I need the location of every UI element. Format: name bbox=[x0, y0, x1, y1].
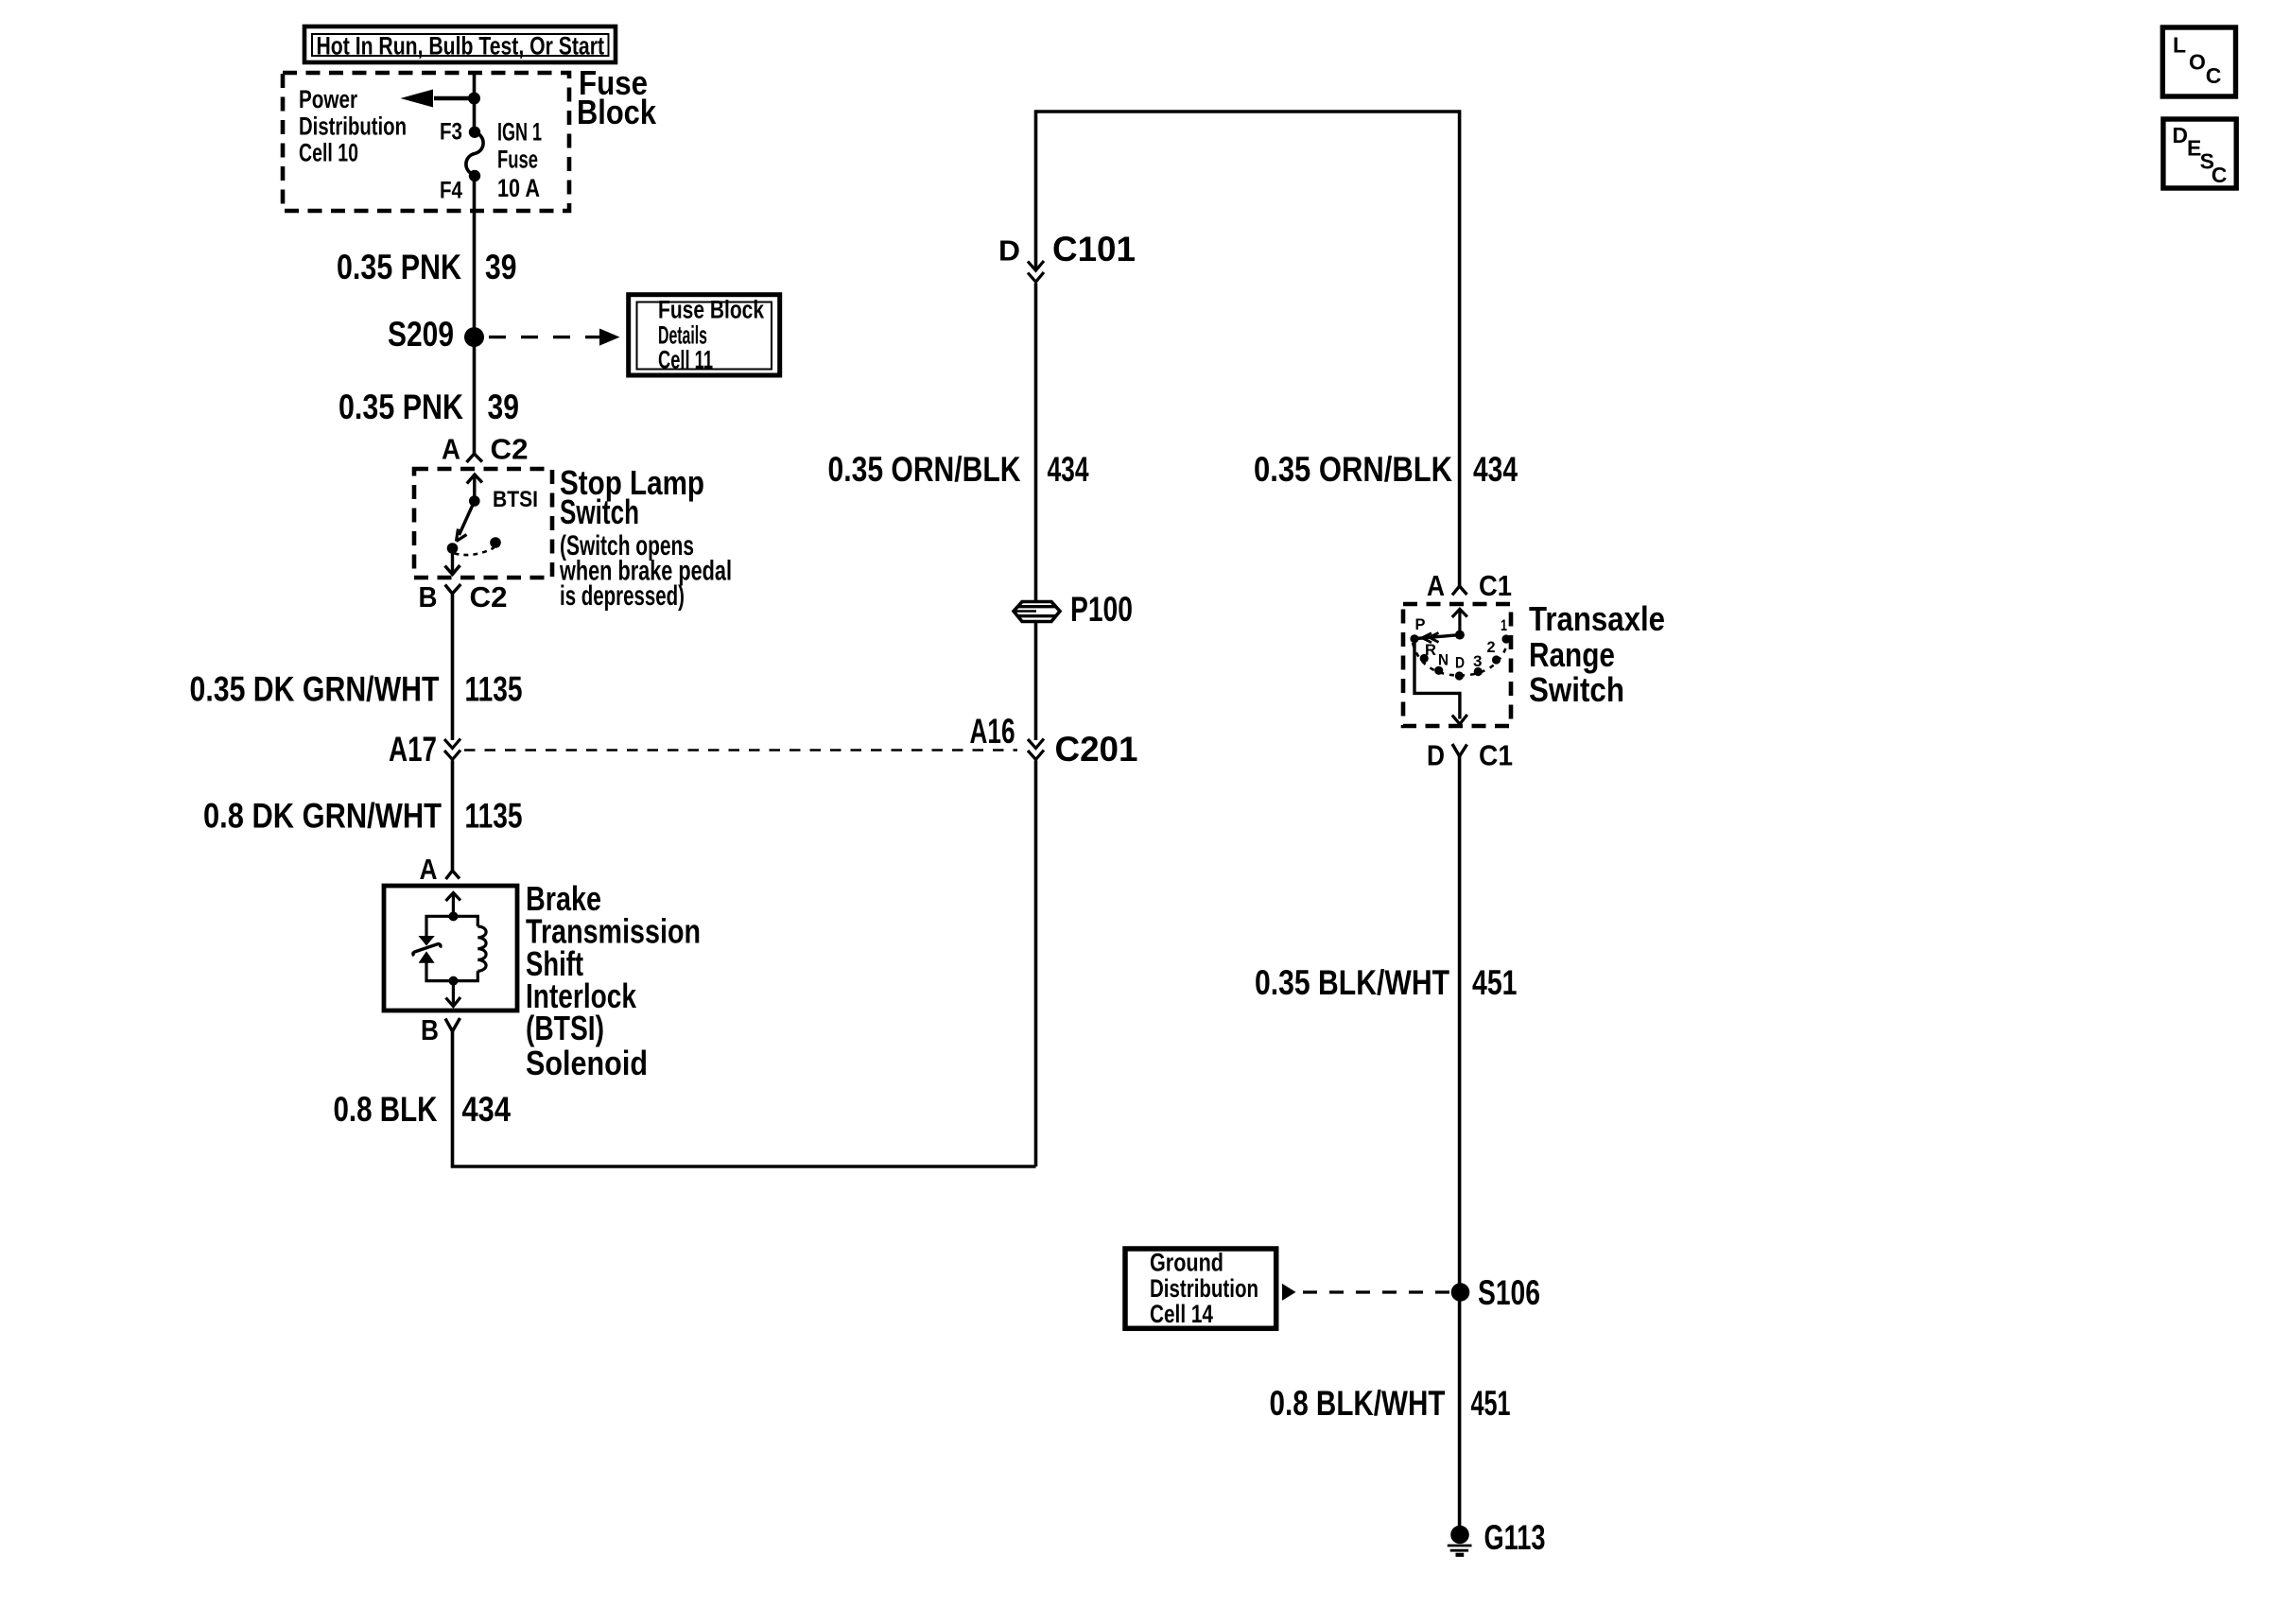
connector C201 pin A17 (double chevron) bbox=[389, 730, 460, 769]
wire: C201 up to P100 bbox=[1034, 622, 1038, 740]
svg-text:1135: 1135 bbox=[465, 670, 523, 709]
wire: B-C2 down to A17 bbox=[451, 593, 455, 740]
wire: middle column vertical (ground return) bbox=[1034, 761, 1038, 1167]
wire: D-C1 down to S106 bbox=[1458, 754, 1462, 1292]
connector C2 pin A (half, legs down) bbox=[442, 433, 529, 466]
node F4 bbox=[469, 170, 480, 181]
svg-text:C1: C1 bbox=[1479, 569, 1512, 602]
svg-text:L: L bbox=[2173, 32, 2186, 57]
svg-text:Distribution: Distribution bbox=[299, 112, 407, 141]
connector C1 pin D (legs up) bbox=[1427, 739, 1513, 772]
svg-text:BTSI: BTSI bbox=[493, 487, 538, 512]
stop lamp switch: pivot node bbox=[469, 495, 480, 507]
wire label 0.35 PNK 39 (second) bbox=[338, 388, 519, 426]
svg-text:IGN 1: IGN 1 bbox=[497, 118, 542, 147]
stop lamp switch: blade with arrowhead bbox=[457, 501, 475, 542]
connector C201 pin A16 (double chevron) bbox=[970, 712, 1138, 769]
stop lamp switch: exit arrow (down) bbox=[445, 551, 460, 575]
BTSI interior: suppressor diode pair bbox=[413, 937, 441, 963]
svg-text:0.35 ORN/BLK: 0.35 ORN/BLK bbox=[828, 450, 1021, 489]
svg-text:Distribution: Distribution bbox=[1150, 1274, 1258, 1303]
svg-text:C: C bbox=[2206, 63, 2222, 88]
svg-text:2: 2 bbox=[1487, 638, 1496, 656]
transaxle switch: exit arrow (down) bbox=[1452, 715, 1467, 724]
svg-text:434: 434 bbox=[1473, 450, 1518, 489]
dashed reference line from S209 bbox=[489, 329, 620, 346]
BTSI interior: parallel loop wiring bbox=[426, 916, 477, 936]
DESC reference box bbox=[2163, 119, 2236, 188]
dashed line A17 to A16 bbox=[464, 749, 1017, 752]
fuse block dashed box bbox=[283, 73, 569, 211]
label: IGN 1 Fuse 10 A bbox=[497, 118, 542, 203]
svg-text:A17: A17 bbox=[389, 730, 437, 769]
svg-text:Fuse: Fuse bbox=[497, 146, 538, 174]
svg-text:39: 39 bbox=[488, 388, 520, 426]
BTSI interior: bottom node bbox=[449, 976, 459, 986]
svg-text:1135: 1135 bbox=[465, 797, 523, 836]
svg-text:A: A bbox=[1427, 569, 1445, 602]
svg-text:D: D bbox=[998, 234, 1020, 268]
svg-text:C2: C2 bbox=[491, 433, 529, 466]
connector C2 pin B (half, legs up) bbox=[419, 580, 508, 613]
wire label 0.8 BLK 434 bbox=[334, 1090, 512, 1129]
BTSI solenoid pin A (legs down) bbox=[420, 853, 460, 886]
svg-text:3: 3 bbox=[1473, 652, 1483, 670]
splice S209 bbox=[464, 327, 484, 347]
stop lamp switch: dashed travel arc bbox=[455, 548, 495, 556]
svg-text:D: D bbox=[1455, 654, 1465, 672]
ground G113 bbox=[1448, 1518, 1546, 1557]
svg-text:10 A: 10 A bbox=[497, 174, 540, 202]
svg-text:D: D bbox=[1427, 739, 1445, 772]
svg-text:Block: Block bbox=[577, 93, 657, 131]
LOC reference box bbox=[2162, 27, 2235, 96]
svg-text:Cell 10: Cell 10 bbox=[299, 139, 358, 167]
transaxle switch: path from P to exit bbox=[1414, 639, 1460, 719]
label: Transaxle Range Switch bbox=[1529, 599, 1665, 709]
svg-text:A: A bbox=[420, 853, 438, 886]
svg-text:434: 434 bbox=[462, 1090, 512, 1129]
BTSI solenoid pin B (legs up) bbox=[421, 1013, 460, 1046]
dashed reference line to S106 bbox=[1282, 1284, 1449, 1301]
svg-text:O: O bbox=[2189, 50, 2206, 75]
svg-text:A16: A16 bbox=[970, 712, 1015, 751]
svg-text:P: P bbox=[1415, 615, 1426, 633]
svg-text:434: 434 bbox=[1048, 450, 1089, 489]
svg-text:N: N bbox=[1438, 651, 1449, 669]
BTSI interior: solenoid coil bbox=[477, 926, 486, 971]
connector C101 pin D (arrow + chevron) bbox=[998, 230, 1136, 282]
svg-text:S106: S106 bbox=[1478, 1273, 1540, 1312]
node F3 bbox=[469, 127, 480, 138]
svg-text:1: 1 bbox=[1501, 616, 1507, 634]
svg-text:D: D bbox=[2172, 123, 2188, 147]
label: Brake Transmission Shift Interlock (BTSI) Solenoid bbox=[526, 879, 701, 1082]
svg-text:Solenoid: Solenoid bbox=[526, 1044, 648, 1082]
svg-text:S209: S209 bbox=[388, 315, 454, 354]
svg-text:Ground: Ground bbox=[1150, 1249, 1223, 1277]
svg-text:0.35 ORN/BLK: 0.35 ORN/BLK bbox=[1254, 450, 1452, 489]
svg-text:0.35 PNK: 0.35 PNK bbox=[337, 248, 461, 286]
svg-text:B: B bbox=[421, 1013, 439, 1046]
svg-text:A: A bbox=[442, 433, 460, 466]
transaxle range switch dashed box bbox=[1403, 604, 1511, 726]
wire label 0.35 ORN/BLK 434 (right) bbox=[1254, 450, 1518, 489]
svg-text:Power: Power bbox=[299, 85, 357, 113]
label: Stop Lamp Switch bbox=[559, 463, 732, 612]
BTSI solenoid box bbox=[384, 886, 517, 1011]
svg-text:C101: C101 bbox=[1052, 230, 1136, 268]
svg-text:0.8 BLK: 0.8 BLK bbox=[334, 1090, 438, 1129]
transaxle switch: pivot node bbox=[1455, 631, 1465, 640]
wire: from fuse block top to F3 bbox=[473, 73, 477, 131]
BTSI interior: entry arrow bbox=[446, 893, 461, 917]
svg-text:R: R bbox=[1425, 641, 1436, 659]
box: Fuse Block Details Cell 11 bbox=[629, 295, 780, 375]
wire label 0.8 BLK/WHT 451 bbox=[1270, 1384, 1511, 1423]
svg-text:0.8 BLK/WHT: 0.8 BLK/WHT bbox=[1270, 1384, 1446, 1423]
svg-text:C2: C2 bbox=[470, 580, 508, 613]
wire: A17 to BTSI solenoid pin A bbox=[451, 761, 455, 872]
BTSI interior: top node bbox=[449, 911, 459, 921]
stop lamp switch dashed box bbox=[414, 469, 552, 578]
splice S106 bbox=[1451, 1283, 1470, 1302]
transaxle switch: dashed travel arc bbox=[1413, 643, 1508, 676]
svg-text:B: B bbox=[419, 580, 438, 613]
svg-text:F3: F3 bbox=[440, 119, 462, 146]
header box: Hot In Run, Bulb Test, Or Start bbox=[304, 26, 616, 62]
wire label 0.35 BLK/WHT 451 bbox=[1255, 963, 1518, 1002]
svg-text:P100: P100 bbox=[1070, 590, 1133, 629]
svg-text:F4: F4 bbox=[440, 178, 462, 204]
svg-text:0.35 DK GRN/WHT: 0.35 DK GRN/WHT bbox=[190, 670, 440, 709]
label: Fuse Block bbox=[577, 63, 657, 131]
svg-text:is depressed): is depressed) bbox=[560, 580, 685, 612]
svg-text:39: 39 bbox=[485, 248, 517, 286]
svg-text:0.35 PNK: 0.35 PNK bbox=[338, 388, 463, 426]
wire label 0.35 PNK 39 bbox=[337, 248, 517, 286]
BTSI interior: exit arrow bbox=[446, 981, 461, 1007]
label: Power Distribution Cell 10 bbox=[299, 85, 407, 167]
arrow to left (power distribution feed) bbox=[401, 90, 475, 108]
svg-text:C1: C1 bbox=[1479, 739, 1513, 772]
svg-text:C: C bbox=[2212, 163, 2228, 187]
grommet P100 bbox=[1014, 590, 1133, 629]
wire: F4 down to S209 and to connector C2-A bbox=[473, 176, 477, 454]
svg-text:Hot In Run, Bulb Test, Or Star: Hot In Run, Bulb Test, Or Start bbox=[317, 32, 605, 60]
svg-text:451: 451 bbox=[1472, 963, 1518, 1002]
svg-text:Switch: Switch bbox=[1529, 670, 1624, 709]
transaxle switch: entry arrow (up) bbox=[1452, 609, 1467, 634]
wire: S106 down to G113 bbox=[1458, 1292, 1462, 1528]
stop lamp switch: entry arrow (up) bbox=[467, 475, 482, 501]
svg-text:0.8 DK GRN/WHT: 0.8 DK GRN/WHT bbox=[203, 797, 442, 836]
box: Ground Distribution Cell 14 bbox=[1125, 1249, 1276, 1329]
wire: P100 up to C101 bbox=[1034, 284, 1038, 601]
transaxle switch: selector arm to P bbox=[1416, 632, 1460, 642]
wire label 0.35 DK GRN/WHT 1135 bbox=[190, 670, 523, 709]
transaxle switch: contacts R N D 3 2 1 bbox=[1420, 616, 1511, 681]
wire label 0.8 DK GRN/WHT 1135 bbox=[203, 797, 523, 836]
svg-text:Range: Range bbox=[1529, 635, 1615, 674]
svg-text:G113: G113 bbox=[1484, 1518, 1546, 1557]
wire label 0.35 ORN/BLK 434 (middle) bbox=[828, 450, 1089, 489]
svg-text:Cell 14: Cell 14 bbox=[1150, 1300, 1213, 1328]
svg-text:451: 451 bbox=[1471, 1384, 1511, 1423]
wire: C101 up and across the top to right column bbox=[1036, 112, 1460, 587]
svg-text:Transaxle: Transaxle bbox=[1529, 599, 1665, 638]
svg-text:0.35 BLK/WHT: 0.35 BLK/WHT bbox=[1255, 963, 1449, 1002]
wire: BTSI pin B down and right to middle column bbox=[453, 1029, 1036, 1166]
connector C1 pin A (legs down) bbox=[1427, 569, 1512, 602]
stop lamp switch: contact nodes bbox=[447, 543, 459, 554]
fuse IGN 1 10 A bbox=[466, 132, 483, 175]
svg-text:Fuse Block: Fuse Block bbox=[658, 296, 765, 324]
svg-text:(BTSI): (BTSI) bbox=[526, 1009, 604, 1047]
transaxle switch: contact P bbox=[1410, 634, 1418, 643]
svg-text:Cell 11: Cell 11 bbox=[658, 346, 713, 374]
junction dot in fuse block bbox=[468, 93, 480, 105]
svg-text:Switch: Switch bbox=[560, 492, 639, 531]
svg-text:C201: C201 bbox=[1055, 730, 1138, 769]
